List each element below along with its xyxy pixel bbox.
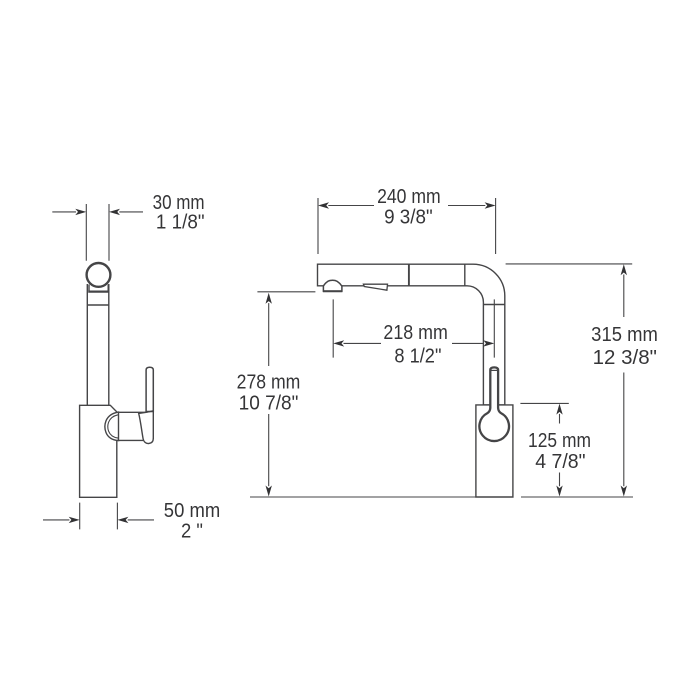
- L-shaped spout and riser pipe: [318, 264, 505, 405]
- arrow down-pointing: [266, 486, 272, 497]
- handle lever with ball joint (keyhole): [479, 367, 509, 441]
- spout joint line 2: [464, 264, 466, 286]
- spray head circle: [87, 263, 111, 287]
- cartridge housing: [117, 412, 146, 440]
- collar under spray head: [89, 285, 108, 291]
- countertop line right: [521, 496, 633, 498]
- arrow right-pointing: [75, 209, 86, 215]
- arrow up-pointing: [266, 293, 272, 304]
- aerator dome: [323, 280, 342, 291]
- arrow up-pointing: [621, 264, 627, 275]
- svg-text:1 1/8": 1 1/8": [156, 211, 205, 234]
- ext lines: [333, 299, 494, 357]
- neck joint line: [87, 304, 109, 306]
- faucet body: [80, 405, 117, 497]
- arrow left-pointing: [109, 209, 120, 215]
- valve cap inner rim: [108, 415, 118, 438]
- dim line bottom segment: [268, 414, 270, 486]
- top ext line: [506, 263, 633, 265]
- svg-text:9 3/8": 9 3/8": [384, 206, 433, 229]
- arrow up-pointing: [556, 404, 562, 415]
- riser joint line: [483, 304, 504, 306]
- dim line right segment: [448, 205, 485, 207]
- top ext line: [257, 291, 315, 293]
- dim line left: [52, 211, 76, 213]
- arrow left-pointing: [318, 202, 329, 208]
- valve cap bulge: [105, 412, 119, 441]
- base body: [476, 405, 513, 497]
- arrow down-pointing: [621, 486, 627, 497]
- dim line left: [43, 519, 69, 521]
- dim line bottom segment: [559, 473, 561, 487]
- arrow left-pointing: [117, 517, 128, 523]
- aerator base line: [323, 290, 343, 292]
- arrow right-pointing: [485, 202, 496, 208]
- svg-text:2 ": 2 ": [181, 520, 203, 543]
- svg-text:8 1/2": 8 1/2": [394, 345, 441, 368]
- countertop line left: [250, 496, 476, 498]
- arrow right-pointing: [483, 340, 494, 346]
- svg-text:315 mm: 315 mm: [591, 323, 658, 346]
- spout joint line 1: [408, 264, 410, 286]
- dim line right: [128, 519, 154, 521]
- dim line bottom segment: [623, 373, 625, 487]
- arrow right-pointing: [69, 517, 80, 523]
- svg-text:125 mm: 125 mm: [528, 430, 591, 453]
- neck pipe: [87, 284, 109, 405]
- dim line right segment: [452, 342, 484, 344]
- svg-text:4 7/8": 4 7/8": [535, 451, 585, 474]
- arrow down-pointing: [556, 486, 562, 497]
- spray trigger: [363, 284, 387, 290]
- lever joint line: [146, 411, 153, 413]
- dim line top segment: [559, 414, 561, 424]
- svg-text:240 mm: 240 mm: [377, 186, 441, 209]
- top ext line: [520, 402, 568, 404]
- svg-text:10 7/8": 10 7/8": [239, 392, 299, 415]
- svg-text:278 mm: 278 mm: [237, 371, 301, 394]
- handle lever bar: [146, 367, 153, 411]
- dim line right: [119, 211, 143, 213]
- dim line left segment: [328, 205, 374, 207]
- ext lines: [318, 198, 496, 254]
- ext lines: [86, 204, 109, 261]
- arrow left-pointing: [333, 340, 344, 346]
- dim line top segment: [268, 303, 270, 366]
- svg-text:12 3/8": 12 3/8": [593, 346, 657, 369]
- ext lines: [80, 503, 118, 530]
- svg-text:218 mm: 218 mm: [383, 322, 447, 344]
- dim line left segment: [344, 342, 382, 344]
- dim line top segment: [623, 275, 625, 318]
- handle base: [139, 411, 154, 444]
- lever cap seam: [490, 369, 498, 371]
